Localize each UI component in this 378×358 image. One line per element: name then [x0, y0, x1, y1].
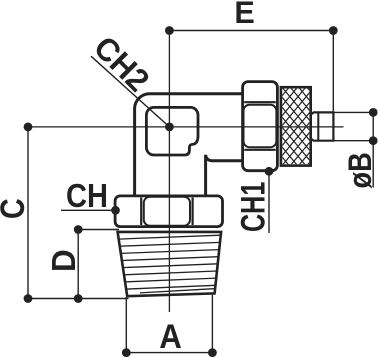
elbow body outer contour right/bottom with fillet — [206, 155, 243, 197]
dimension A line — [126, 352, 212, 354]
thread crest lines — [119, 235, 221, 293]
svg-text:C: C — [0, 198, 32, 219]
dimension A right dot — [208, 348, 217, 357]
dimension A left dot — [122, 348, 131, 357]
hex CH1 internal face line lower — [244, 149, 275, 151]
oB leader underline — [372, 112, 374, 187]
CH leader underline — [61, 209, 116, 211]
dimension C vertical line — [27, 127, 29, 299]
centerline horizontal — [28, 126, 344, 128]
CH1 leader dot — [265, 167, 274, 176]
dimension A left extension line — [125, 297, 127, 353]
lower hex internal face line right — [192, 198, 194, 226]
stem step line — [317, 112, 319, 140]
svg-text:CH1: CH1 — [235, 182, 273, 232]
lower hex middle face barrel — [144, 197, 190, 226]
dimension A right extension line — [211, 295, 213, 353]
svg-text:E: E — [234, 0, 254, 30]
svg-text:D: D — [45, 249, 82, 272]
oB upper dot — [369, 108, 378, 117]
lower hex CH outline — [115, 196, 222, 227]
dimension E line — [169, 30, 333, 32]
hex nut CH1 (right arm) outline — [243, 82, 278, 171]
CH1 leader underline — [268, 171, 270, 233]
elbow inner bore rounded square with step — [146, 107, 198, 155]
hex CH1 internal face line upper — [244, 101, 275, 103]
CH2 leader dot — [165, 123, 174, 132]
centerline vertical — [168, 31, 170, 313]
oB lower dot — [369, 136, 378, 145]
lower hex internal face line left — [140, 198, 142, 226]
CH leader dot — [111, 206, 120, 215]
dimension E right extension line — [332, 31, 334, 112]
dimension E left dot — [165, 26, 174, 35]
dimension C top dot — [24, 123, 33, 132]
dimension D vertical line — [77, 230, 79, 299]
male thread outline — [118, 232, 222, 296]
svg-text:CH2: CH2 — [87, 29, 157, 99]
hex CH1 middle face barrel — [244, 105, 277, 147]
knurled ring border — [281, 87, 311, 165]
dimension C bottom dot — [24, 294, 33, 303]
dimension D top extension line — [78, 229, 119, 231]
CH2 leader line — [91, 56, 169, 127]
dimension D top dot — [74, 225, 83, 234]
dimension D bottom dot — [74, 294, 83, 303]
oB lower extension line — [335, 140, 374, 142]
dimension E right dot — [329, 26, 338, 35]
svg-text:A: A — [159, 317, 182, 356]
knurl crosshatch — [216, 87, 373, 165]
svg-text:CH: CH — [66, 177, 108, 214]
stem outline — [311, 112, 334, 140]
C/D bottom shared line — [28, 298, 129, 300]
oB upper extension line — [335, 111, 374, 113]
svg-text:øB: øB — [343, 152, 378, 188]
elbow body outer contour left/top — [135, 94, 243, 197]
